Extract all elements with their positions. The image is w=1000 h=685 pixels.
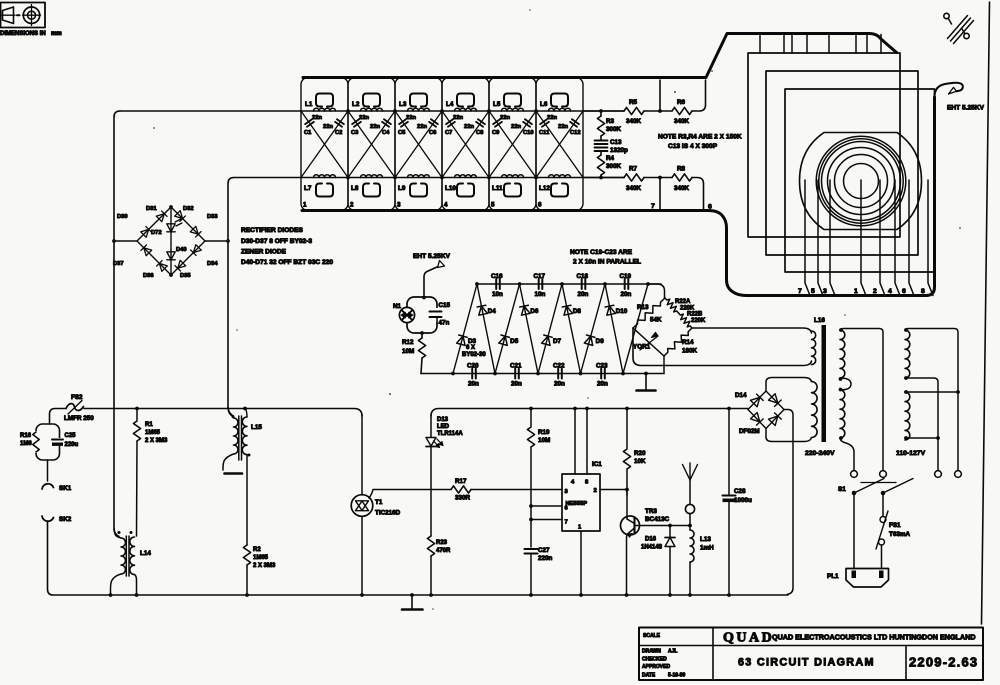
stator outline — [800, 133, 922, 230]
capacitor C17 — [539, 279, 543, 289]
wire pin8 — [585, 407, 589, 411]
D14 bridge diode 2 — [766, 391, 784, 410]
wire 110V lower bottom — [905, 437, 938, 439]
resistor R5 — [624, 107, 644, 114]
svg-text:QUAD: QUAD — [723, 631, 774, 646]
svg-text:NE555P: NE555P — [566, 501, 588, 507]
inductor L8 — [361, 175, 383, 178]
resistor R12 — [421, 333, 423, 338]
svg-text:SCALE: SCALE — [643, 633, 661, 639]
svg-text:2 X 3M3: 2 X 3M3 — [145, 438, 168, 444]
svg-text:BC413C: BC413C — [645, 516, 670, 523]
svg-text:C17: C17 — [534, 273, 546, 280]
svg-text:DF02M: DF02M — [739, 428, 760, 435]
capacitor C1 — [301, 111, 348, 178]
panel wire terminal 1 — [861, 180, 866, 296]
svg-text:R14: R14 — [682, 339, 694, 346]
resistor R4 — [600, 151, 602, 155]
diode D8 — [562, 305, 572, 315]
resistor R23 — [427, 536, 434, 556]
svg-text:8: 8 — [921, 288, 925, 295]
inductor L1 — [314, 108, 336, 111]
inductor L12 — [549, 175, 571, 178]
svg-text:22n: 22n — [359, 115, 369, 121]
svg-text:L4: L4 — [446, 101, 454, 108]
svg-text:L14: L14 — [140, 550, 151, 557]
delay line top bus (thick) — [303, 34, 897, 78]
svg-text:TIC216D: TIC216D — [375, 510, 401, 517]
svg-text:CHECKED: CHECKED — [642, 657, 667, 663]
svg-text:220n: 220n — [538, 555, 553, 562]
svg-text:NOTE R3,R4 ARE 2 X 150K: NOTE R3,R4 ARE 2 X 150K — [658, 134, 742, 141]
svg-text:63 CIRCUIT DIAGRAM: 63 CIRCUIT DIAGRAM — [738, 657, 875, 669]
primary tap link — [840, 378, 851, 390]
ring edge diodes D36 D37 — [137, 241, 171, 275]
svg-text:L13: L13 — [700, 536, 711, 543]
svg-text:22n: 22n — [323, 124, 333, 130]
multiplier diagonal with D7 — [538, 284, 562, 374]
inductor L9 — [408, 175, 430, 178]
resistor R7 — [624, 174, 644, 181]
inductor L2 — [361, 108, 383, 111]
wire primary bottom to terminal — [840, 438, 854, 470]
svg-text:330R: 330R — [455, 495, 471, 502]
capacitor C15 — [430, 311, 442, 313]
svg-text:7: 7 — [798, 288, 802, 295]
svg-text:10n: 10n — [535, 291, 546, 298]
svg-text:20n: 20n — [511, 381, 522, 388]
panel wire terminal 6 — [909, 180, 914, 296]
capacitor C7 — [442, 111, 489, 178]
svg-text:L3: L3 — [399, 101, 407, 108]
svg-text:340K: 340K — [674, 185, 690, 192]
svg-text:300K: 300K — [606, 163, 622, 170]
svg-text:L1: L1 — [305, 101, 313, 108]
wire D14 bottom to secondary — [766, 429, 812, 442]
svg-text:R22A: R22A — [675, 299, 691, 305]
svg-text:RECTIFIER DIODES: RECTIFIER DIODES — [241, 227, 304, 234]
svg-text:C18: C18 — [577, 273, 589, 280]
svg-text:TLR114A: TLR114A — [437, 431, 463, 437]
wire 110V upper top — [905, 329, 958, 471]
svg-text:C23: C23 — [596, 363, 608, 370]
svg-text:L15: L15 — [251, 424, 262, 431]
wire primary top to terminal — [840, 329, 883, 471]
svg-text:7: 7 — [651, 203, 655, 210]
svg-text:10n: 10n — [492, 291, 503, 298]
svg-text:D33: D33 — [207, 214, 218, 220]
svg-text:FS2: FS2 — [71, 394, 83, 401]
svg-text:1mH: 1mH — [700, 545, 714, 552]
page-continuation symbol — [944, 13, 974, 43]
svg-text:3: 3 — [823, 288, 827, 295]
svg-text:C7: C7 — [445, 130, 452, 136]
svg-text:D3: D3 — [468, 338, 477, 345]
svg-text:22n: 22n — [558, 124, 568, 130]
svg-text:R20: R20 — [634, 450, 646, 457]
svg-text:2209-2.63: 2209-2.63 — [909, 655, 978, 670]
svg-text:8: 8 — [585, 480, 589, 486]
left bus wire — [113, 117, 115, 241]
wire 110V lower top strap — [905, 391, 958, 393]
multiplier diagonal with D6 — [520, 284, 539, 374]
capacitor C3 — [348, 111, 395, 178]
diode D6 — [520, 305, 530, 315]
svg-text:L7: L7 — [304, 185, 312, 192]
svg-text:300K: 300K — [606, 126, 622, 133]
capacitor C4 — [348, 111, 395, 178]
wire L15 right to rail — [246, 409, 248, 418]
svg-text:1N4148: 1N4148 — [641, 545, 663, 551]
svg-text:C4: C4 — [382, 130, 390, 136]
svg-text:C28: C28 — [734, 488, 746, 495]
EHT secondary winding — [812, 331, 816, 365]
wire D14 top to secondary — [766, 378, 812, 392]
svg-text:QUAD ELECTROACOUSTICS LTD HUNT: QUAD ELECTROACOUSTICS LTD HUNTINGDON ENG… — [772, 633, 976, 642]
resistor R19 — [529, 407, 533, 411]
svg-text:L16: L16 — [814, 317, 825, 324]
live rail wire left segment — [84, 409, 362, 417]
svg-text:FS1: FS1 — [889, 522, 901, 529]
svg-text:1: 1 — [578, 525, 582, 531]
resistor R17 — [451, 486, 471, 493]
fuse FS1 — [882, 493, 884, 516]
svg-text:4: 4 — [888, 288, 892, 295]
svg-text:T1: T1 — [375, 499, 383, 506]
svg-text:20n: 20n — [597, 381, 608, 388]
inductor L10 — [455, 175, 477, 178]
svg-text:C16: C16 — [491, 273, 503, 280]
right page border — [982, 2, 990, 624]
fuse FS2 — [66, 404, 84, 411]
svg-text:T63mA: T63mA — [889, 531, 910, 538]
diode D16 — [668, 524, 672, 528]
svg-text:6 X: 6 X — [466, 345, 475, 351]
bottom rail right extension — [583, 177, 624, 179]
diode D7 — [542, 335, 553, 345]
svg-text:C5: C5 — [398, 130, 406, 136]
bridge bottom wire — [663, 356, 665, 374]
multiplier rail junctions — [475, 282, 479, 286]
ioniser electrode circle — [685, 504, 694, 513]
capacitor C11 — [536, 111, 583, 178]
loop top junction — [422, 296, 426, 300]
svg-text:DATE: DATE — [642, 673, 656, 679]
svg-text:C22: C22 — [553, 363, 565, 370]
svg-text:220-240V: 220-240V — [805, 450, 835, 457]
neutral wire SK2 down — [48, 521, 111, 595]
wire 110V upper bottom — [905, 378, 938, 470]
svg-text:340K: 340K — [626, 118, 642, 125]
D14 bridge diode 4 — [766, 410, 784, 429]
triac T1 — [361, 415, 363, 496]
capacitor C25 — [52, 438, 64, 446]
svg-text:2: 2 — [873, 288, 877, 295]
primary winding 220-240V upper — [840, 330, 845, 378]
panel rear — [748, 53, 900, 237]
svg-text:L2: L2 — [352, 101, 360, 108]
wire pin2 — [600, 489, 627, 491]
svg-text:1M6: 1M6 — [20, 441, 32, 447]
wire C19 to bridge — [648, 284, 665, 298]
svg-text:C11: C11 — [539, 130, 550, 136]
svg-text:5: 5 — [491, 202, 495, 209]
top rail wire — [120, 110, 624, 112]
capacitor C10 — [489, 111, 536, 178]
svg-text:20n: 20n — [621, 291, 632, 298]
EHT output arrow — [424, 267, 437, 297]
triac gate wire — [369, 490, 451, 499]
svg-text:R17: R17 — [455, 478, 467, 485]
svg-text:C20: C20 — [467, 363, 479, 370]
svg-text:180K: 180K — [682, 348, 698, 355]
multiplier top rail — [477, 283, 661, 285]
svg-text:C10: C10 — [523, 130, 534, 136]
svg-text:PL1: PL1 — [827, 573, 839, 580]
transformer L15 — [228, 407, 234, 417]
capacitor C23 — [601, 369, 605, 379]
inductor L5 — [502, 108, 524, 111]
svg-text:C21: C21 — [510, 363, 522, 370]
ring edge diodes D30 D31 — [137, 207, 171, 241]
capacitor C20 — [472, 369, 476, 379]
varistor YOR1 — [633, 328, 664, 356]
svg-text:D6: D6 — [530, 308, 539, 315]
ring edge diodes D34 D35 — [171, 241, 205, 275]
svg-text:D30-D37 8 OFF BY02-3: D30-D37 8 OFF BY02-3 — [241, 238, 312, 245]
svg-text:22n: 22n — [406, 115, 416, 121]
resistor R14 — [664, 328, 692, 356]
diode D10 — [605, 305, 615, 315]
svg-text:SK2: SK2 — [59, 516, 72, 523]
panel wire terminal 4 — [895, 180, 900, 296]
neon lamp N1 — [399, 307, 414, 322]
svg-text:R6: R6 — [677, 99, 686, 106]
panel wire terminal 3 — [830, 180, 835, 296]
svg-text:R2: R2 — [253, 547, 261, 553]
socket SK1 — [47, 460, 49, 481]
svg-text:AJL: AJL — [668, 649, 677, 655]
svg-text:5: 5 — [811, 288, 815, 295]
svg-text:R1: R1 — [145, 422, 153, 428]
neon N1 loop — [407, 297, 437, 333]
svg-text:22n: 22n — [453, 115, 463, 121]
svg-text:47n: 47n — [439, 320, 450, 327]
connector PL1 — [846, 569, 889, 588]
wire pin7 — [529, 518, 533, 522]
svg-text:S1: S1 — [838, 486, 846, 493]
loop bottom junction — [420, 331, 424, 335]
svg-text:2 X 3M3: 2 X 3M3 — [253, 563, 276, 569]
svg-text:C3: C3 — [351, 130, 359, 136]
wire pin6 — [529, 504, 533, 508]
svg-text:10K: 10K — [634, 458, 646, 465]
svg-text:220K: 220K — [691, 318, 706, 324]
svg-text:D8: D8 — [573, 308, 582, 315]
panel wire terminal 7 — [805, 180, 810, 296]
panel wire terminal 2 — [880, 180, 885, 296]
panel connector tabs — [760, 35, 881, 54]
svg-text:22n: 22n — [417, 124, 427, 130]
svg-text:TR3: TR3 — [645, 508, 657, 515]
svg-text:22n: 22n — [312, 115, 322, 121]
svg-text:6: 6 — [708, 204, 712, 211]
multiplier diagonal with D10 — [605, 284, 623, 374]
svg-text:6: 6 — [902, 288, 906, 295]
svg-text:C2: C2 — [335, 130, 342, 136]
ring bottom dot — [169, 273, 173, 277]
multiplier diagonal with D9 — [581, 284, 606, 374]
svg-text:22n: 22n — [500, 115, 510, 121]
svg-text:C13: C13 — [610, 139, 622, 146]
capacitor C16 — [496, 279, 500, 289]
svg-text:R7: R7 — [629, 166, 638, 173]
ground L15 — [225, 472, 243, 475]
transformer L14 — [114, 528, 121, 538]
svg-text:C6: C6 — [429, 130, 437, 136]
svg-text:1: 1 — [303, 202, 307, 209]
capacitor C12 — [536, 111, 583, 178]
svg-text:2 X 10n IN PARALLEL: 2 X 10n IN PARALLEL — [573, 259, 641, 266]
wire D14 right vertex down — [784, 410, 793, 595]
multiplier bottom rail — [421, 373, 664, 375]
multiplier diagonal with D3 — [453, 284, 477, 374]
svg-text:1M65: 1M65 — [253, 555, 269, 561]
svg-text:C12: C12 — [570, 130, 581, 136]
svg-text:R5: R5 — [629, 99, 638, 106]
svg-text:D13: D13 — [437, 417, 449, 423]
svg-text:110-127V: 110-127V — [896, 450, 926, 457]
svg-text:22n: 22n — [370, 124, 380, 130]
svg-text:YOR1: YOR1 — [633, 344, 651, 351]
terminal circles — [851, 471, 858, 478]
antenna symbol — [689, 463, 691, 480]
title block frame — [639, 628, 983, 681]
svg-text:R19: R19 — [538, 429, 550, 436]
svg-text:4: 4 — [571, 480, 575, 486]
svg-text:R4: R4 — [606, 155, 615, 162]
svg-text:20n: 20n — [578, 291, 589, 298]
svg-text:20n: 20n — [468, 381, 479, 388]
svg-text:D5: D5 — [510, 338, 519, 345]
svg-text:ZENER DIODE: ZENER DIODE — [241, 249, 287, 256]
IC1 NE555 box — [562, 474, 600, 531]
svg-text:D36: D36 — [143, 273, 154, 279]
svg-text:C25: C25 — [65, 433, 77, 439]
bus wire ring to L15 — [228, 241, 232, 415]
D14 bridge diode 3 — [748, 410, 766, 429]
resistor R8 — [672, 174, 692, 181]
resistor R13 — [633, 298, 665, 328]
multiplier diagonal with D8 — [562, 284, 581, 374]
zero volt rail — [110, 594, 788, 596]
capacitor C28 — [727, 407, 731, 411]
svg-text:D30: D30 — [117, 214, 128, 220]
resistor R2 — [243, 545, 250, 565]
svg-text:R3: R3 — [606, 118, 615, 125]
capacitor C2 — [301, 111, 348, 178]
capacitor C22 — [558, 369, 562, 379]
svg-text:R16: R16 — [20, 433, 32, 439]
wire S1 left pole down — [853, 493, 855, 569]
capacitor C18 — [582, 279, 586, 289]
winding 110-127V lower — [905, 392, 910, 440]
svg-text:54K: 54K — [650, 317, 662, 324]
resistor R3 — [599, 109, 603, 113]
svg-text:EHT 5.25KV: EHT 5.25KV — [947, 105, 985, 112]
projection symbol target circles — [23, 7, 39, 23]
svg-text:1000u: 1000u — [734, 497, 752, 504]
panel wire terminal 8 — [928, 180, 933, 296]
projection symbol box — [1, 3, 46, 28]
svg-text:D32: D32 — [183, 206, 194, 212]
capacitor C5 — [395, 111, 442, 178]
live rail wire right segment — [431, 409, 748, 417]
svg-text:4: 4 — [444, 202, 448, 209]
svg-text:R8: R8 — [677, 166, 686, 173]
resistor R16 — [32, 431, 40, 453]
svg-text:L5: L5 — [493, 101, 501, 108]
svg-text:D37: D37 — [113, 261, 124, 267]
scan specks — [153, 9, 961, 610]
multiplier ground — [645, 374, 647, 390]
svg-text:L6: L6 — [540, 101, 548, 108]
wire pin4 — [573, 407, 577, 411]
bottom rail wire — [234, 177, 624, 179]
diode D5 — [499, 335, 510, 345]
svg-text:D34: D34 — [207, 261, 218, 267]
svg-text:3: 3 — [565, 489, 569, 495]
primary winding 220-240V lower — [840, 390, 845, 438]
delay line section cells — [301, 78, 583, 211]
svg-text:LMFR 250: LMFR 250 — [64, 415, 94, 422]
capacitor C9 — [489, 111, 536, 178]
transformer core L16 — [822, 325, 827, 442]
svg-text:EHT 5.25KV: EHT 5.25KV — [413, 253, 451, 260]
svg-text:22n: 22n — [464, 124, 474, 130]
inductor L6 — [549, 108, 571, 111]
D14 bridge diode 1 — [748, 391, 766, 410]
svg-text:D4: D4 — [488, 308, 497, 315]
inductor L7 — [314, 175, 336, 178]
svg-text:L9: L9 — [398, 185, 406, 192]
wire rail to R16 loop — [50, 409, 67, 425]
svg-text:NOTE C19-C23 ARE: NOTE C19-C23 ARE — [570, 249, 633, 256]
svg-text:22n: 22n — [511, 124, 521, 130]
diode D4 — [477, 305, 487, 315]
svg-text:220u: 220u — [65, 442, 79, 448]
svg-text:D35: D35 — [180, 273, 191, 279]
svg-text:IC1: IC1 — [592, 461, 602, 468]
svg-text:3: 3 — [397, 202, 401, 209]
resistor R1 — [135, 407, 139, 411]
ring edge diodes D32 D33 — [171, 207, 205, 241]
svg-text:7: 7 — [565, 520, 568, 526]
EHT secondary loop — [692, 328, 812, 333]
panel front — [785, 89, 935, 272]
svg-text:D40: D40 — [176, 247, 187, 253]
svg-text:6: 6 — [538, 202, 542, 209]
capacitor C27 — [525, 548, 538, 550]
wire pin1 — [580, 531, 582, 595]
multiplier diagonal with D5 — [495, 284, 520, 374]
ring right wire — [205, 240, 228, 242]
svg-text:22n: 22n — [547, 115, 557, 121]
panel wire terminal 5 — [818, 180, 823, 296]
inductor L11 — [502, 175, 524, 178]
svg-text:D40-D71 32 OFF BZT 03C 220: D40-D71 32 OFF BZT 03C 220 — [241, 259, 333, 266]
svg-text:R23: R23 — [436, 540, 448, 546]
